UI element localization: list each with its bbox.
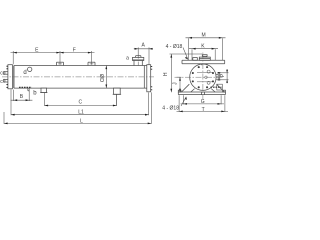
svg-text:C: C — [78, 100, 82, 106]
svg-text:a: a — [126, 56, 129, 62]
svg-text:H: H — [163, 72, 169, 76]
svg-text:L: L — [80, 118, 83, 124]
svg-text:ØD: ØD — [98, 74, 104, 82]
svg-text:F: F — [73, 48, 76, 54]
svg-text:d: d — [23, 70, 26, 76]
svg-text:M: M — [202, 32, 206, 38]
svg-text:G: G — [201, 99, 205, 105]
svg-text:4 - Ø18: 4 - Ø18 — [166, 44, 183, 50]
svg-text:L1: L1 — [78, 110, 84, 116]
svg-text:4 - Ø18: 4 - Ø18 — [162, 106, 179, 112]
svg-text:T: T — [202, 107, 205, 113]
